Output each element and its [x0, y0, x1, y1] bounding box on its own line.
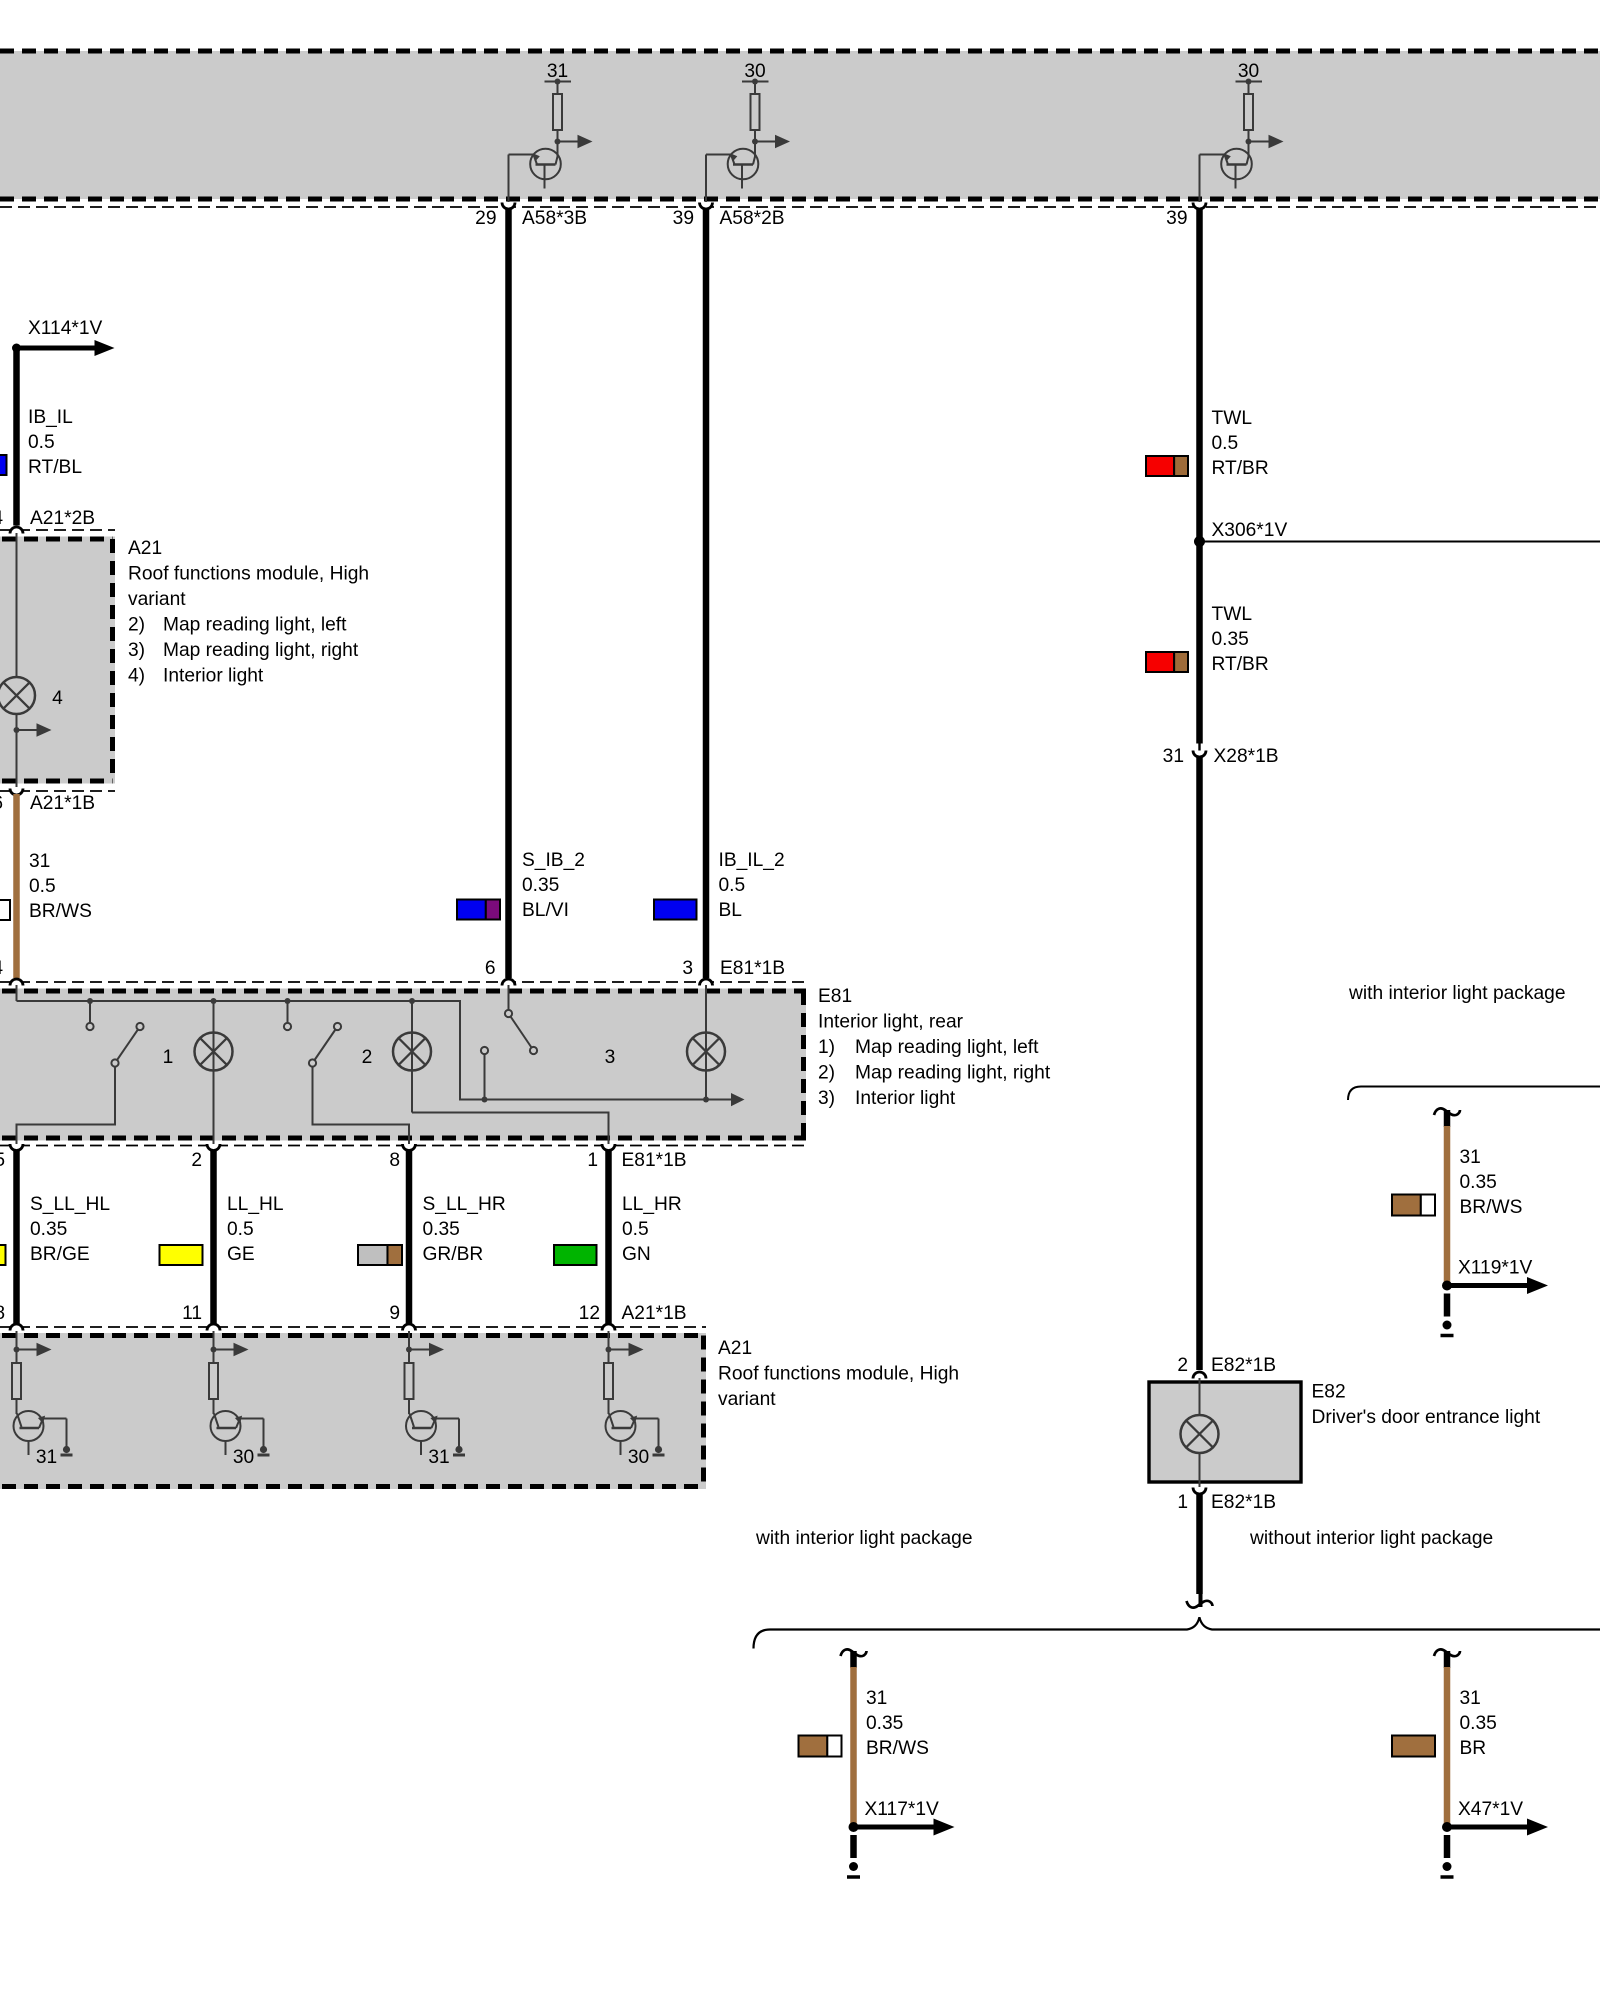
svg-text:31: 31: [866, 1688, 887, 1709]
svg-text:9: 9: [389, 1303, 400, 1324]
ground stub X47*1V: [1392, 1649, 1548, 1877]
lamp 2 output wire to pin 1: [412, 1113, 609, 1145]
lamp 1 map reading light left: [213, 1001, 215, 1144]
wire 31 BR/WS (brown): [1444, 1126, 1451, 1286]
ground symbol: [850, 1835, 857, 1858]
svg-text:1: 1: [587, 1150, 598, 1171]
svg-text:variant: variant: [718, 1389, 776, 1410]
A21 internal wire pin4 to lamp: [16, 533, 18, 678]
svg-text:A21: A21: [128, 538, 162, 559]
wire 31 BR/WS (brown): [850, 1667, 857, 1827]
svg-text:BR/WS: BR/WS: [866, 1738, 929, 1759]
switch 1 output wire to pin 5: [17, 1067, 116, 1145]
svg-text:8: 8: [389, 1150, 400, 1171]
svg-text:8: 8: [0, 1303, 5, 1324]
connector strip A21*1B: [0, 1326, 706, 1328]
svg-text:BR: BR: [1460, 1738, 1487, 1759]
svg-text:BL/VI: BL/VI: [522, 900, 569, 921]
svg-text:S_LL_HL: S_LL_HL: [30, 1194, 110, 1215]
lamp 2 map reading light right: [411, 1001, 413, 1113]
svg-text:31: 31: [547, 61, 568, 82]
ground stub X117*1V: [799, 1649, 955, 1877]
svg-text:6: 6: [0, 793, 3, 814]
svg-text:39: 39: [673, 208, 694, 229]
svg-text:GR/BR: GR/BR: [423, 1244, 484, 1265]
switch 2 output wire to pin 8: [313, 1067, 410, 1145]
svg-text:RT/BL: RT/BL: [28, 457, 82, 478]
svg-text:GE: GE: [227, 1244, 255, 1265]
wire LL_HL 0.5 GE (E81 to A21): [210, 1150, 217, 1328]
svg-text:0.35: 0.35: [866, 1713, 903, 1734]
lamp E82: [1181, 1415, 1219, 1453]
pin 12 connector A21*1B: [602, 1324, 615, 1330]
svg-text:1: 1: [1177, 1492, 1188, 1513]
svg-text:GN: GN: [622, 1244, 651, 1265]
svg-text:1): 1): [818, 1037, 835, 1058]
svg-text:39: 39: [1166, 208, 1187, 229]
svg-text:IB_IL_2: IB_IL_2: [719, 850, 785, 871]
svg-text:3: 3: [682, 958, 693, 979]
wire ground stub hook: [1434, 1649, 1460, 1656]
svg-text:X28*1B: X28*1B: [1214, 746, 1279, 767]
E81 bus arrow: [731, 1093, 745, 1106]
svg-text:30: 30: [628, 1447, 649, 1468]
big brace under E82 wire: [754, 1617, 1600, 1648]
connector strip E81*1B (bottom): [0, 1145, 806, 1147]
svg-text:LL_HR: LL_HR: [622, 1194, 682, 1215]
svg-text:31: 31: [1460, 1688, 1481, 1709]
wire S_LL_HR 0.35 GR/BR (E81 to A21): [406, 1150, 413, 1328]
svg-text:0.5: 0.5: [622, 1219, 649, 1240]
wire S_IB_2 (A58*3B pin 29 to E81 pin 6): [505, 208, 512, 978]
switch 3 output contact stub: [484, 1054, 486, 1100]
svg-text:30: 30: [1238, 61, 1259, 82]
svg-text:Driver's door entrance light: Driver's door entrance light: [1312, 1407, 1541, 1428]
wire ground stub hook: [1434, 1108, 1460, 1115]
wire TWL 0.5 RT/BR (pin 39 to X306): [1196, 208, 1203, 744]
wire 31 BR (brown): [1444, 1667, 1451, 1827]
colour box BL: [654, 900, 697, 920]
svg-text:Map reading light, right: Map reading light, right: [163, 640, 359, 661]
wire branch from X306*1V to right edge: [1200, 541, 1600, 543]
svg-text:E82*1B: E82*1B: [1211, 1492, 1276, 1513]
svg-text:3: 3: [605, 1047, 616, 1068]
wire E82 pin 1 down to branch point: [1196, 1493, 1203, 1594]
lamp 3 interior light rear: [705, 985, 707, 1100]
wire 31 0.5 BR/WS (A21 pin 6 to E81 pin 4, brown): [13, 794, 20, 978]
svg-text:BR/GE: BR/GE: [30, 1244, 90, 1265]
pin 3 connector E81*1B (top): [700, 979, 713, 986]
svg-text:31: 31: [1163, 746, 1184, 767]
svg-text:12: 12: [579, 1303, 600, 1324]
svg-text:1: 1: [163, 1047, 174, 1068]
wire IB_IL 0.5 RT/BL (X114 to A21 pin 4): [13, 348, 20, 526]
svg-text:4): 4): [128, 666, 145, 687]
svg-text:31: 31: [428, 1447, 449, 1468]
svg-text:11: 11: [182, 1303, 202, 1324]
pin 39 connector (TWL): [1193, 203, 1206, 210]
switch 2 (map reading light right): [287, 1001, 289, 1023]
colour box BL/VI: [457, 900, 486, 920]
ground stub X119*1V (with interior light package): [1392, 1108, 1548, 1335]
svg-text:X117*1V: X117*1V: [865, 1799, 940, 1820]
svg-text:Roof functions module, High: Roof functions module, High: [718, 1364, 959, 1385]
transistor driver (terminal 30) in band, pin wire x=706: [706, 79, 790, 203]
svg-text:E81*1B: E81*1B: [622, 1150, 687, 1171]
svg-text:Roof functions module, High: Roof functions module, High: [128, 564, 369, 585]
svg-text:0.35: 0.35: [30, 1219, 67, 1240]
svg-text:0.5: 0.5: [1212, 433, 1239, 454]
pin 2 connector (E81 bottom): [207, 1144, 220, 1150]
svg-text:S_LL_HR: S_LL_HR: [423, 1194, 506, 1215]
svg-text:Map reading light, left: Map reading light, left: [855, 1037, 1039, 1058]
svg-text:3): 3): [818, 1088, 835, 1109]
switch 1 (map reading light left): [89, 1001, 91, 1023]
svg-text:31: 31: [1460, 1147, 1481, 1168]
svg-text:with interior light package: with interior light package: [755, 1528, 973, 1549]
svg-text:A21*2B: A21*2B: [30, 508, 95, 529]
colour box GN: [554, 1245, 597, 1265]
svg-text:E82: E82: [1312, 1382, 1346, 1403]
svg-text:Map reading light, right: Map reading light, right: [855, 1063, 1051, 1084]
pin 11 connector: [207, 1324, 220, 1330]
svg-text:A58*3B: A58*3B: [522, 208, 587, 229]
component E82 driver door entrance light: [1149, 1382, 1301, 1482]
wire end hook above brace: [1187, 1601, 1213, 1608]
colour box GR/BR: [358, 1245, 387, 1265]
svg-text:RT/BR: RT/BR: [1212, 654, 1269, 675]
pin 4 connector (E81 top): [10, 979, 23, 986]
svg-text:4: 4: [0, 508, 3, 529]
svg-text:2: 2: [191, 1150, 202, 1171]
svg-text:0.5: 0.5: [227, 1219, 254, 1240]
svg-text:Interior light: Interior light: [855, 1088, 956, 1109]
colour box GE: [160, 1245, 203, 1265]
svg-text:X119*1V: X119*1V: [1458, 1258, 1533, 1279]
svg-text:TWL: TWL: [1212, 604, 1253, 625]
colour box: [1392, 1736, 1435, 1757]
svg-text:RT/BR: RT/BR: [1212, 458, 1269, 479]
wire TWL (X28 to E82 pin 2): [1196, 756, 1203, 1370]
colour box: [799, 1736, 828, 1757]
pin 1 connector E81*1B (bottom): [602, 1144, 615, 1151]
svg-text:with interior light package: with interior light package: [1348, 983, 1566, 1004]
svg-text:E81: E81: [818, 986, 852, 1007]
svg-text:30: 30: [233, 1447, 254, 1468]
component A21 roof functions module (lower box, switch inputs): [0, 1333, 706, 1489]
svg-text:31: 31: [36, 1447, 57, 1468]
lamp 4 interior light (in A21): [0, 677, 35, 714]
svg-text:S_IB_2: S_IB_2: [522, 850, 585, 871]
transistor input stage (terminal 30) at x=608.5: [604, 1331, 665, 1468]
svg-text:BR/WS: BR/WS: [29, 901, 92, 922]
svg-text:0.35: 0.35: [1460, 1713, 1497, 1734]
colour box RT/BR: [1146, 456, 1174, 476]
svg-text:5: 5: [0, 1150, 5, 1171]
ground symbol: [1444, 1835, 1451, 1858]
component A21 roof functions module (upper box, interior light output): [0, 537, 115, 784]
transistor input stage (terminal 31) at x=409: [405, 1331, 466, 1468]
svg-text:TWL: TWL: [1212, 408, 1253, 429]
svg-text:variant: variant: [128, 589, 186, 610]
colour box RT/BR: [1146, 652, 1174, 672]
pin 39 connector A58*2B: [700, 203, 713, 210]
svg-text:BL: BL: [719, 900, 743, 921]
svg-text:E82*1B: E82*1B: [1211, 1355, 1276, 1376]
svg-text:X47*1V: X47*1V: [1458, 1799, 1523, 1820]
pin 5 connector (E81 bottom): [10, 1144, 23, 1151]
switch 3 (interior light) fed from pin 6: [508, 985, 510, 1010]
wire LL_HR 0.5 GN (E81 to A21): [605, 1150, 612, 1328]
svg-text:0.35: 0.35: [1460, 1172, 1497, 1193]
svg-text:X306*1V: X306*1V: [1212, 520, 1288, 541]
pin 1 connector E82*1B (bottom): [1193, 1488, 1206, 1495]
svg-text:4: 4: [0, 958, 3, 979]
pin 6 connector A21*1B: [0, 790, 115, 792]
connector strip E81*1B (top): [0, 981, 806, 983]
control unit band (junction box electronics): [0, 51, 1600, 199]
svg-text:2: 2: [1177, 1355, 1188, 1376]
transistor input stage (terminal 31) at x=16.5: [12, 1331, 73, 1468]
svg-text:6: 6: [485, 958, 496, 979]
svg-text:A21*1B: A21*1B: [622, 1303, 687, 1324]
svg-text:3): 3): [128, 640, 145, 661]
svg-text:0.5: 0.5: [719, 875, 746, 896]
svg-text:Map reading light, left: Map reading light, left: [163, 615, 347, 636]
pin 8 connector (A21 bottom box): [10, 1324, 23, 1330]
svg-text:2: 2: [362, 1047, 373, 1068]
transistor driver (terminal 31) in band, pin wire x=508.5: [509, 79, 593, 203]
wire ground stub hook: [841, 1649, 867, 1656]
svg-text:31: 31: [29, 851, 50, 872]
inline connector X28*1B pin 31: [1193, 751, 1206, 758]
A21 internal wire lamp to pin 6 with branch arrow: [16, 714, 18, 787]
svg-text:Interior light: Interior light: [163, 666, 264, 687]
pin 6 connector (E81 top): [502, 979, 515, 986]
svg-text:A21: A21: [718, 1338, 752, 1359]
wire IB_IL_2 (A58*2B pin 39 to E81 pin 3): [703, 208, 710, 978]
pin 29 connector A58*3B: [502, 203, 515, 210]
svg-text:0.35: 0.35: [1212, 629, 1249, 650]
bracket for interior light package variant: [1348, 1087, 1600, 1101]
svg-text:A21*1B: A21*1B: [30, 793, 95, 814]
svg-text:29: 29: [475, 208, 496, 229]
svg-text:0.5: 0.5: [28, 432, 55, 453]
E81 internal supply bus from pin 4: [16, 985, 18, 1001]
svg-text:30: 30: [744, 61, 765, 82]
svg-text:4: 4: [52, 688, 63, 709]
ground symbol: [1444, 1294, 1451, 1317]
wire S_LL_HL 0.35 BR/GE (E81 to A21): [13, 1150, 20, 1328]
colour box: [1392, 1195, 1421, 1216]
svg-text:LL_HL: LL_HL: [227, 1194, 284, 1215]
svg-text:A58*2B: A58*2B: [720, 208, 785, 229]
connector strip line A58: [0, 206, 1600, 208]
pin 9 connector: [403, 1324, 416, 1330]
svg-text:E81*1B: E81*1B: [720, 958, 785, 979]
transistor driver (terminal 30) in band, pin wire x=1199.5: [1200, 79, 1284, 203]
pin 8 connector (E81 bottom): [403, 1144, 416, 1151]
svg-text:X114*1V: X114*1V: [28, 318, 103, 339]
transistor input stage (terminal 30) at x=213.5: [209, 1331, 270, 1468]
svg-text:0.35: 0.35: [522, 875, 559, 896]
svg-text:without interior light package: without interior light package: [1249, 1528, 1493, 1549]
component E81 interior light rear (box): [0, 989, 806, 1141]
svg-text:IB_IL: IB_IL: [28, 407, 73, 428]
svg-text:2): 2): [128, 615, 145, 636]
svg-text:BR/WS: BR/WS: [1460, 1197, 1523, 1218]
svg-text:Interior light, rear: Interior light, rear: [818, 1012, 964, 1033]
svg-text:0.5: 0.5: [29, 876, 56, 897]
svg-text:0.35: 0.35: [423, 1219, 460, 1240]
svg-text:2): 2): [818, 1063, 835, 1084]
